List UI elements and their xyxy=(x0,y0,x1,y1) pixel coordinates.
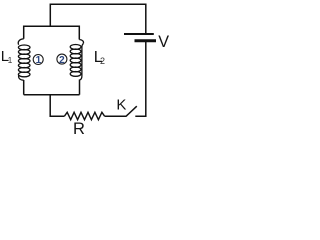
svg-text:2: 2 xyxy=(59,55,65,66)
node label 1 (circled digit, coil L1 winding) xyxy=(33,55,43,67)
wire: L1 bottom lead xyxy=(23,80,25,95)
wire: inner bottom wire joining coil bottoms xyxy=(24,94,80,96)
wire: middle riser down to bottom run xyxy=(50,95,64,117)
wire: resistor to switch xyxy=(105,115,127,117)
wire: outer top run (left riser, top wire, right drop to battery) xyxy=(50,4,146,33)
svg-text:K: K xyxy=(116,96,126,113)
wire: L2 bottom lead xyxy=(79,80,81,95)
wire: switch fixed contact and right riser up to battery xyxy=(135,42,146,116)
wire: inner top wire joining coil tops xyxy=(24,26,80,39)
resistor R (zigzag) xyxy=(64,112,104,119)
inductor L2 (right coil) xyxy=(70,40,83,81)
inductor L1 (left coil) xyxy=(18,39,30,80)
battery V: top (long) plate xyxy=(124,33,154,35)
node label 2 (circled digit, coil L2 winding) xyxy=(57,54,67,66)
svg-text:2: 2 xyxy=(100,56,105,66)
svg-text:1: 1 xyxy=(8,55,13,65)
battery V: bottom (short thick) plate xyxy=(135,39,157,42)
svg-text:R: R xyxy=(73,120,85,135)
svg-text:V: V xyxy=(158,33,169,51)
switch K blade (open) xyxy=(126,106,137,116)
svg-text:1: 1 xyxy=(36,55,42,66)
